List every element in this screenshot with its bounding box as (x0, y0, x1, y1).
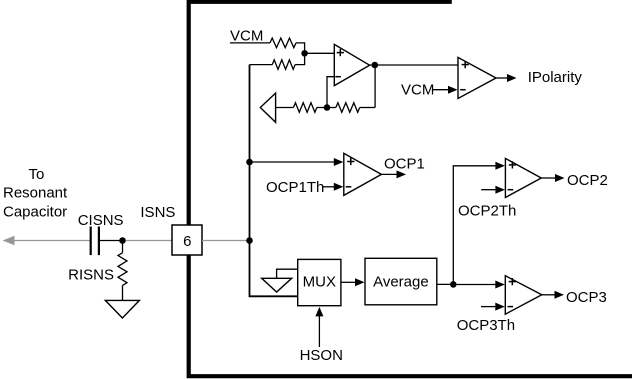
svg-text:VCM: VCM (230, 28, 263, 45)
svg-text:OCP2Th: OCP2Th (458, 203, 516, 220)
wire HSON to MUX (318, 315, 320, 347)
wire buffer to resistor R3 (276, 107, 294, 109)
node average output (450, 281, 457, 288)
output arrow IPolarity (496, 77, 508, 79)
node op-amp + input (301, 50, 308, 57)
wire pin 6 to bus (gray) (202, 240, 247, 242)
wire VCM to IPolarity - (433, 89, 450, 91)
resistor RISNS (122, 241, 124, 253)
wire VCM input (230, 42, 270, 44)
svg-text:ISNS: ISNS (140, 204, 175, 221)
ground (MUX input) (262, 278, 292, 292)
comparator OCP3 (505, 276, 542, 315)
svg-text:OCP3: OCP3 (566, 289, 607, 306)
node bus / OCP1 branch (246, 159, 253, 166)
output arrow OCP2 (541, 177, 555, 179)
svg-text:OCP1Th: OCP1Th (266, 179, 324, 196)
node ISNS input (119, 237, 126, 244)
wire node up to OCP2 + (453, 166, 496, 285)
svg-text:RISNS: RISNS (68, 267, 114, 284)
wire node to OCP3 + (453, 284, 496, 286)
chip boundary (189, 2, 632, 376)
wire stub to OCP3 - (481, 306, 496, 308)
svg-text:VCM: VCM (401, 82, 434, 99)
resistor R4 (feedback right) (327, 107, 336, 109)
wire to resonant capacitor (gray) (12, 240, 90, 242)
pin 6 box (172, 225, 202, 255)
buffer triangle (left) (260, 93, 275, 122)
comparator OCP1 (344, 153, 382, 195)
wire bus to OCP1 + (250, 161, 336, 163)
wire op-amp - input (327, 77, 334, 108)
op-amp U1 (334, 44, 369, 85)
wire main ISNS bus (250, 65, 298, 297)
box MUX (298, 259, 341, 305)
node op-amp output (372, 62, 379, 69)
wire op-amp output to IPolarity + (370, 64, 458, 66)
wire node to pin 6 (gray) (126, 240, 172, 242)
svg-text:OCP2: OCP2 (567, 172, 608, 189)
svg-text:Resonant: Resonant (3, 185, 68, 202)
wire MUX to Average (341, 281, 357, 283)
svg-text:OCP1: OCP1 (384, 155, 425, 172)
svg-text:Capacitor: Capacitor (3, 204, 67, 221)
svg-text:OCP3Th: OCP3Th (457, 317, 515, 334)
wire feedback to output (374, 65, 376, 108)
box Average (365, 258, 437, 305)
output arrow OCP3 (542, 294, 555, 296)
svg-text:To: To (28, 166, 44, 183)
node feedback (324, 104, 331, 111)
resistor R1 (top) (270, 38, 296, 48)
resistor R3 (feedback left) (293, 103, 317, 113)
wire Average to node (437, 283, 454, 285)
svg-text:CISNS: CISNS (78, 212, 124, 229)
output arrow OCP1 (381, 173, 397, 175)
resistor R2 (to bus) (250, 64, 273, 66)
wire ground to MUX (277, 269, 298, 278)
comparator IPolarity (458, 57, 496, 98)
svg-text:Average: Average (373, 273, 429, 290)
node bus / ISNS junction (246, 237, 253, 244)
ground (below RISNS) (105, 300, 139, 318)
wire stub to OCP2 - (481, 189, 496, 191)
wire OCP1Th to OCP1 - (322, 186, 335, 188)
capacitor CISNS (90, 227, 92, 256)
wire node to op-amp + (305, 52, 335, 54)
wire capacitor to node (100, 240, 123, 242)
svg-text:HSON: HSON (300, 347, 343, 364)
svg-text:MUX: MUX (303, 274, 336, 291)
comparator OCP2 (505, 158, 541, 197)
svg-text:IPolarity: IPolarity (528, 69, 583, 86)
label To Resonant Capacitor (3, 166, 68, 221)
svg-text:6: 6 (183, 233, 191, 250)
